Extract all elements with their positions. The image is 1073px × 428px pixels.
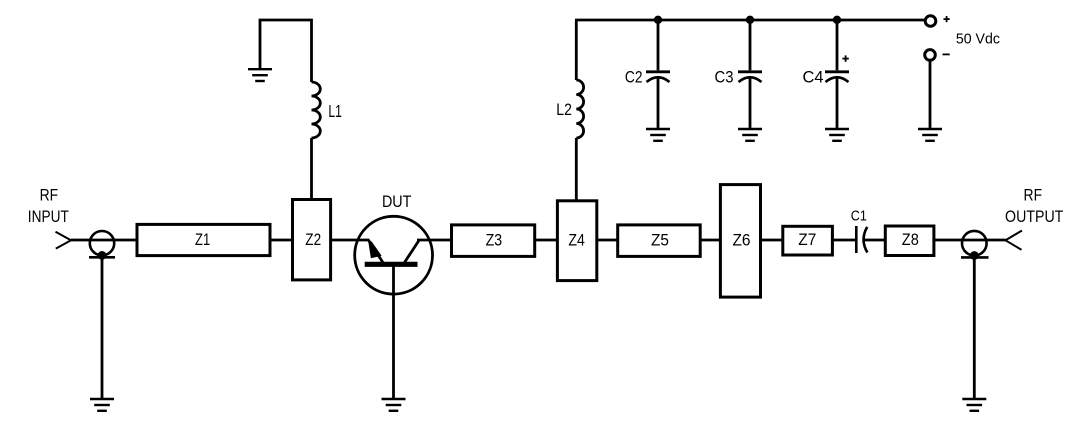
wire minus terminal to ground: [929, 61, 932, 130]
label plus sign terminal: [944, 16, 950, 22]
wire L2 top to rail: [575, 20, 578, 80]
wire C4 to ground: [836, 78, 839, 130]
ground top left: [248, 69, 272, 81]
wire Z2 to DUT emitter: [330, 239, 370, 242]
inductor L1: [312, 82, 321, 138]
ground output: [962, 399, 986, 411]
wire DUT base to ground: [392, 263, 395, 399]
junction dot C4 rail: [833, 16, 841, 24]
svg-text:RF: RF: [40, 186, 59, 205]
connector J2 output plug chevron: [1006, 231, 1023, 250]
capacitor C2: [646, 72, 670, 82]
wire output shield to ground: [973, 255, 976, 399]
connector J1 input plug chevron: [56, 232, 72, 249]
svg-text:Z4: Z4: [568, 231, 585, 249]
resistor Z3 box: [452, 225, 535, 257]
junction dot C2 rail: [654, 16, 662, 24]
junction dot C3 rail: [746, 16, 754, 24]
svg-text:L2: L2: [556, 100, 572, 119]
wire Z7 to C1: [832, 239, 856, 242]
resistor Z1 box: [137, 224, 270, 255]
wire C4 to rail: [836, 20, 839, 70]
ground DUT base: [382, 399, 406, 411]
svg-text:OUTPUT: OUTPUT: [1005, 207, 1063, 226]
capacitor C3: [738, 72, 762, 82]
ground C4: [825, 129, 849, 141]
svg-text:L1: L1: [328, 101, 342, 121]
connector J1 input shield bar: [89, 256, 115, 259]
svg-text:INPUT: INPUT: [28, 207, 69, 226]
svg-text:C1: C1: [851, 207, 867, 224]
capacitor C4 plus sign: [842, 55, 848, 61]
ground C3: [738, 129, 762, 141]
svg-text:50 Vdc: 50 Vdc: [956, 31, 1000, 48]
resistor Z2 box: [293, 200, 331, 280]
wire DUT collector to Z3: [417, 239, 452, 242]
wire Z4 to Z5: [597, 239, 619, 242]
terminal minus 50Vdc: [925, 50, 936, 61]
connector J2 output coax circle: [962, 231, 987, 256]
svg-text:DUT: DUT: [382, 192, 412, 211]
wire Z6 to Z7: [760, 239, 784, 242]
wire C3 to ground: [749, 78, 752, 130]
wire L1 top to ground corner: [260, 20, 312, 82]
ground C2: [646, 129, 670, 141]
junction dot output shield: [970, 251, 979, 260]
wire supply rail: [575, 19, 925, 22]
wire C3 to rail: [749, 20, 752, 70]
wire Z2 top to L1: [310, 138, 313, 200]
connector J2 output shield bar: [961, 256, 989, 259]
wire C1 to Z8: [863, 239, 887, 242]
transistor DUT circle: [355, 216, 433, 294]
wire Z5 to Z6: [700, 239, 721, 242]
transistor DUT emitter line: [369, 241, 384, 264]
ground minus terminal: [918, 129, 942, 141]
svg-text:Z6: Z6: [733, 231, 751, 249]
svg-text:C4: C4: [803, 67, 824, 86]
wire Z4 top to L2: [575, 138, 578, 201]
label minus sign terminal: [943, 53, 950, 55]
svg-text:Z2: Z2: [305, 231, 321, 249]
junction dot input shield: [98, 251, 107, 260]
ground input: [90, 399, 114, 411]
svg-text:Z8: Z8: [902, 231, 919, 249]
inductor L2: [576, 80, 583, 138]
svg-text:C2: C2: [625, 67, 643, 86]
resistor Z5 box: [618, 225, 701, 257]
svg-text:Z3: Z3: [486, 231, 503, 249]
capacitor C4: [825, 72, 849, 82]
transistor DUT emitter arrow: [368, 239, 382, 258]
svg-text:Z5: Z5: [651, 231, 669, 249]
node RF OUTPUT label: [1005, 186, 1063, 226]
resistor Z7 box: [783, 226, 833, 255]
connector J1 input coax circle: [90, 231, 114, 255]
svg-text:C3: C3: [715, 67, 734, 86]
svg-text:Z7: Z7: [798, 231, 816, 249]
terminal plus 50Vdc: [925, 16, 936, 27]
wire input plug to Z1: [71, 239, 137, 242]
wire C2 to rail: [657, 20, 660, 70]
resistor Z6 box: [720, 185, 760, 298]
resistor Z8 box: [885, 226, 934, 256]
transistor DUT base bar: [365, 262, 418, 267]
wire input shield to ground: [101, 255, 104, 399]
wire Z1 to Z2: [270, 239, 293, 242]
svg-text:RF: RF: [1024, 186, 1043, 205]
capacitor C1: [856, 226, 867, 253]
transistor DUT collector line: [404, 240, 419, 263]
resistor Z4 box: [557, 201, 596, 281]
svg-text:Z1: Z1: [195, 231, 210, 249]
wire Z8 to output connector: [934, 239, 1006, 242]
node RF INPUT label: [28, 186, 69, 226]
wire Z3 to Z4: [535, 239, 558, 242]
wire C2 to ground: [657, 78, 660, 130]
